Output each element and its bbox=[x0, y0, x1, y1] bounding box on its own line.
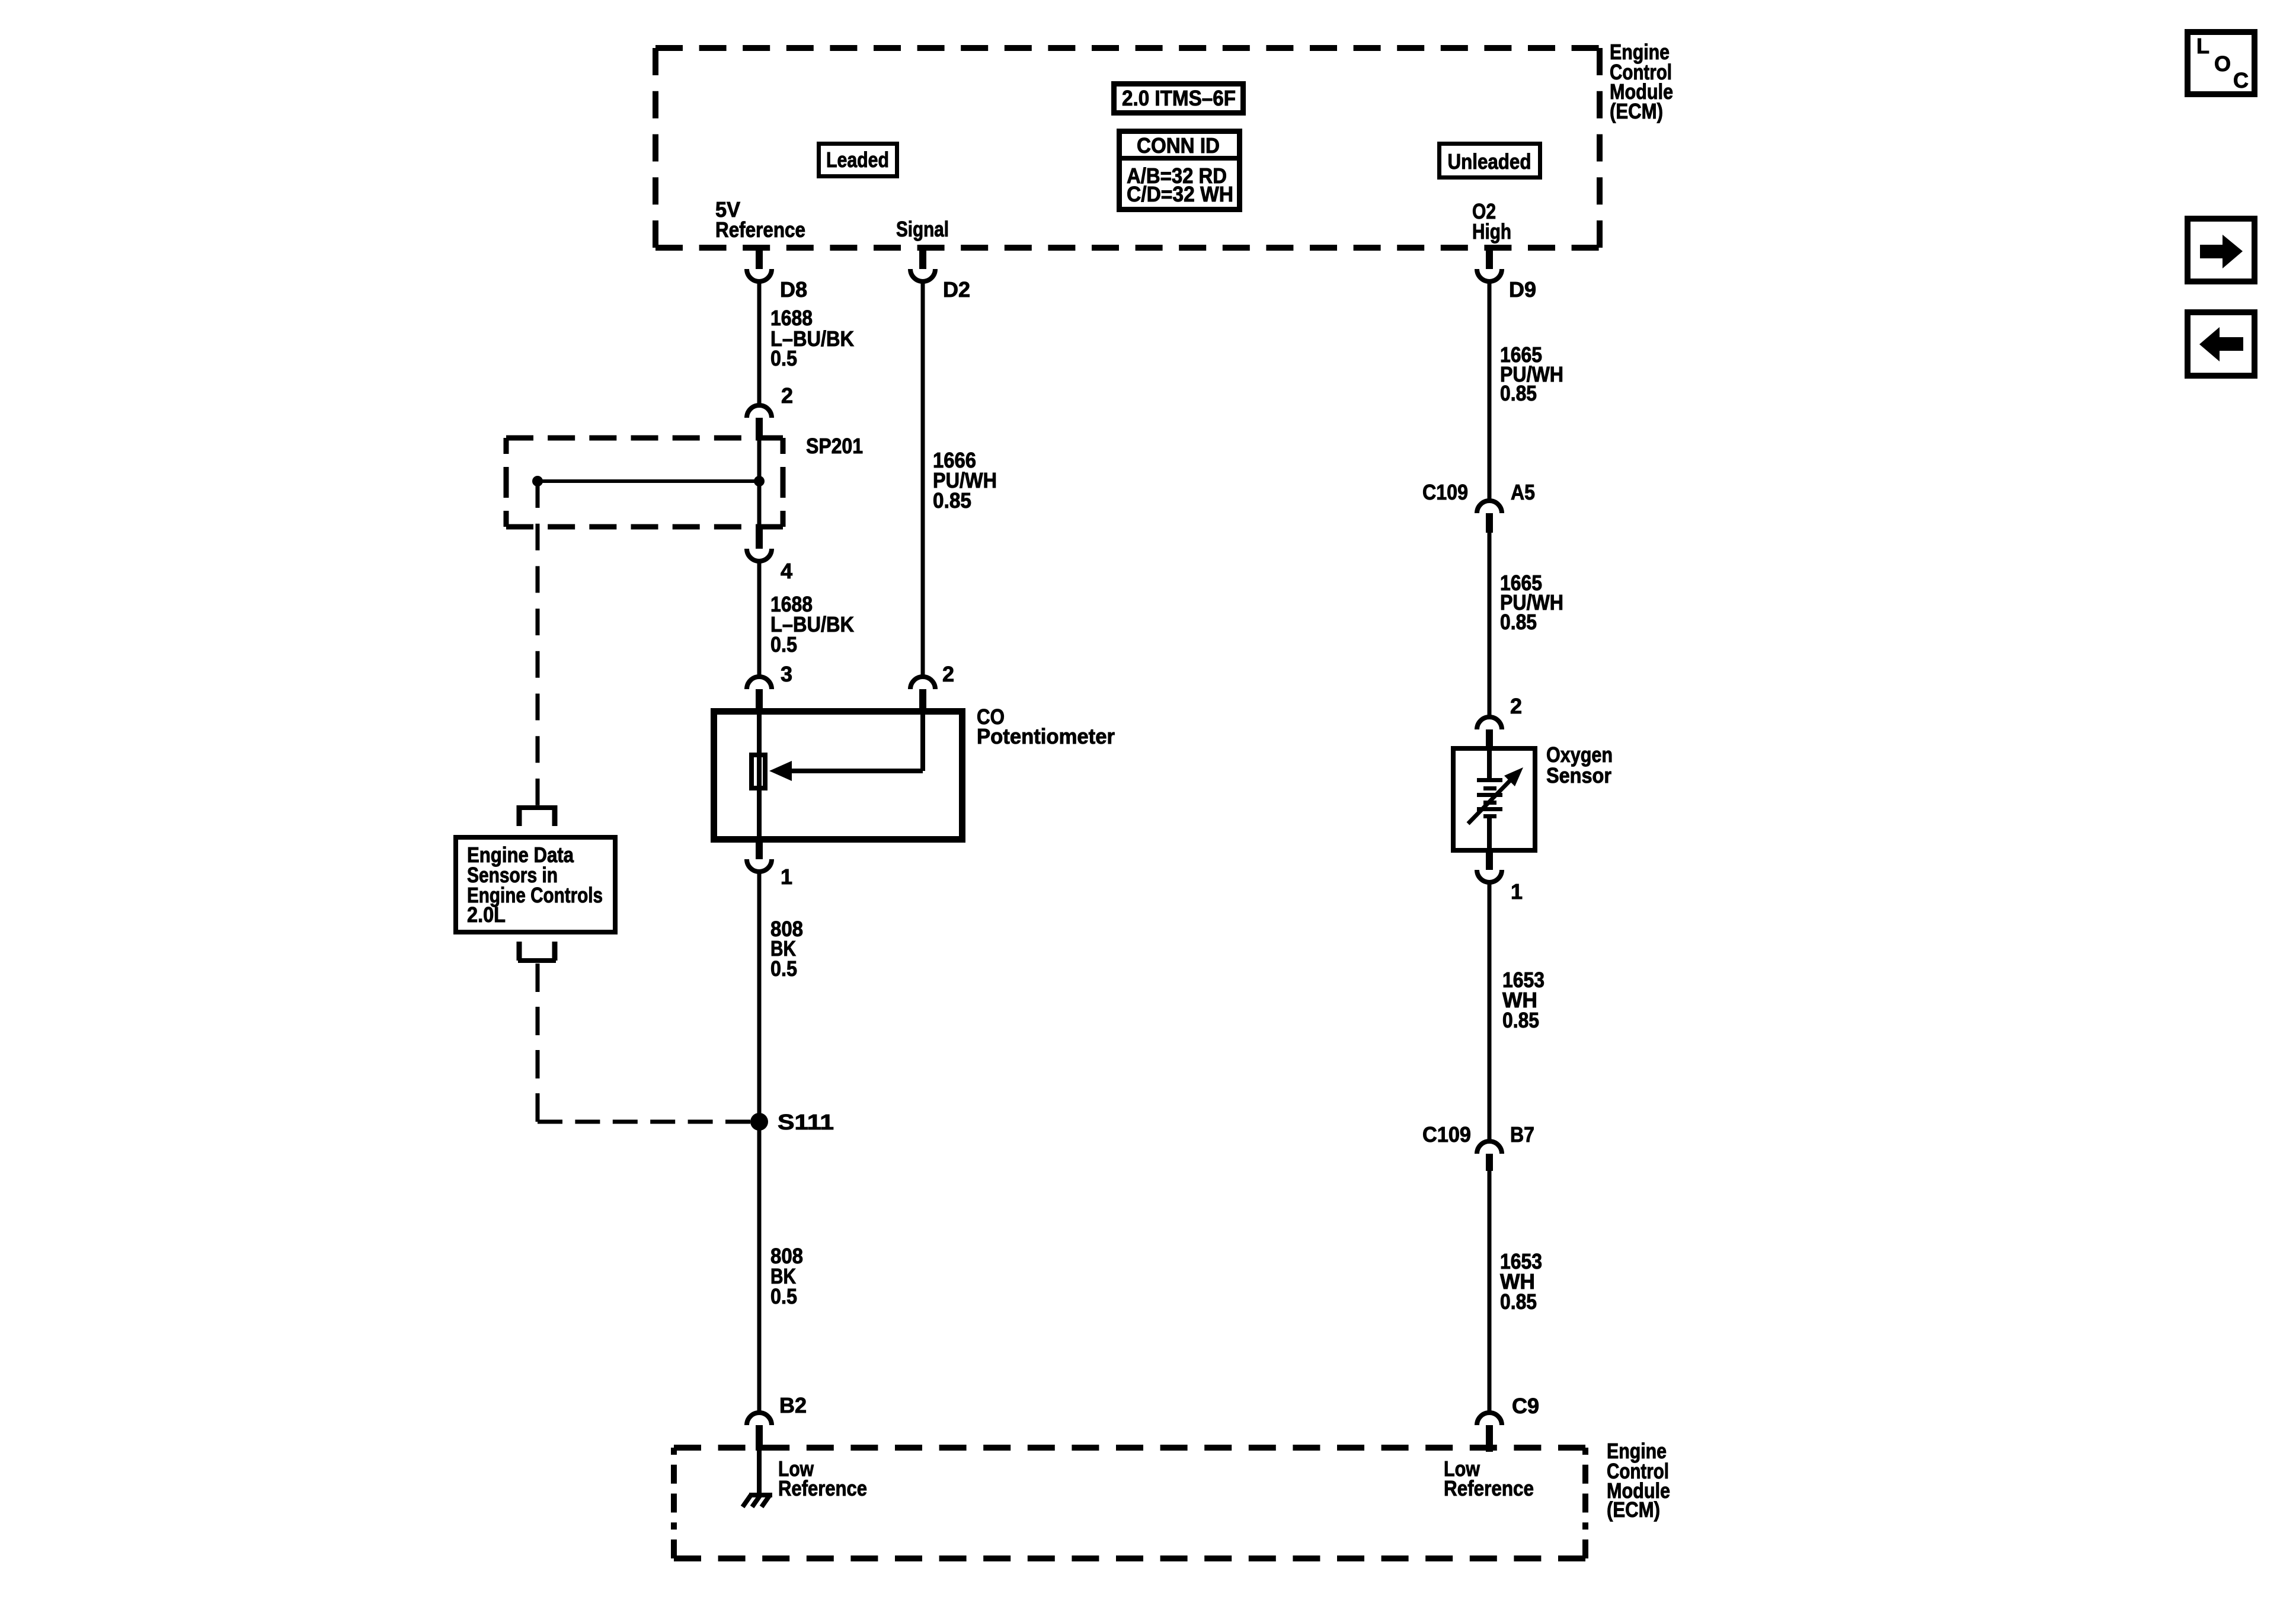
svg-text:C9: C9 bbox=[1512, 1394, 1539, 1418]
svg-text:1: 1 bbox=[781, 865, 792, 889]
connector 3 (CO pot pin 3) bbox=[747, 677, 772, 689]
resistive element wire bbox=[757, 709, 762, 839]
label box: 2.0 ITMS-6F bbox=[1114, 84, 1243, 113]
svg-text:0.85: 0.85 bbox=[933, 488, 971, 513]
svg-text:3: 3 bbox=[781, 662, 792, 686]
splice box SP201 (dashed) bbox=[506, 436, 783, 441]
svg-text:2: 2 bbox=[781, 383, 793, 408]
wire 1653 (O2 sensor to C109) bbox=[1488, 882, 1492, 1142]
dashed wire (sensors to S111) bbox=[536, 964, 540, 1122]
svg-text:2: 2 bbox=[942, 662, 954, 686]
wire 808 (S111 to B2) bbox=[757, 1122, 762, 1414]
svg-text:SP201: SP201 bbox=[806, 434, 863, 458]
variability arrow bbox=[1468, 779, 1512, 824]
label box: Leaded bbox=[819, 144, 897, 177]
svg-text:0.5: 0.5 bbox=[770, 956, 797, 981]
arrow box (previous) bbox=[2188, 312, 2255, 376]
svg-text:C/D=32 WH: C/D=32 WH bbox=[1127, 182, 1233, 206]
splice jumper wire bbox=[538, 479, 759, 483]
connector 2 (O2 sensor) bbox=[1477, 717, 1502, 729]
connector 2 (SP201 in) bbox=[747, 405, 772, 418]
connector pin D2 bbox=[919, 245, 926, 269]
wire 1688 (SP201 to CO pot) bbox=[757, 561, 762, 677]
svg-text:2.0L: 2.0L bbox=[467, 902, 506, 927]
ground (low reference) bbox=[749, 1493, 772, 1497]
svg-text:Sensor: Sensor bbox=[1546, 763, 1611, 788]
wire 1665 (C109 to O2 sensor) bbox=[1488, 533, 1492, 718]
svg-text:4: 4 bbox=[781, 559, 792, 583]
svg-text:D8: D8 bbox=[780, 277, 807, 302]
label box: Unleaded bbox=[1440, 144, 1540, 178]
svg-text:0.85: 0.85 bbox=[1502, 1008, 1539, 1032]
svg-text:2.0 ITMS–6F: 2.0 ITMS–6F bbox=[1122, 86, 1236, 110]
wire 808 (CO pot to S111) bbox=[757, 872, 762, 1122]
svg-text:Leaded: Leaded bbox=[826, 148, 889, 172]
wiper wire from pin 2 bbox=[920, 709, 925, 771]
dashed wire (SP201 to sensors) bbox=[536, 481, 540, 805]
connector pin D8 bbox=[756, 245, 763, 269]
svg-text:High: High bbox=[1472, 219, 1511, 244]
svg-text:D9: D9 bbox=[1509, 277, 1536, 302]
Oxygen Sensor box bbox=[1453, 748, 1535, 850]
connector 2 (CO pot pin 2) bbox=[910, 677, 935, 689]
connector 1 (CO pot pin 1) bbox=[756, 839, 763, 859]
connector bracket (top) bbox=[518, 805, 556, 810]
connector pin B2 bbox=[747, 1413, 772, 1425]
svg-text:0.5: 0.5 bbox=[770, 346, 797, 370]
svg-text:(ECM): (ECM) bbox=[1610, 99, 1663, 123]
svg-text:B2: B2 bbox=[779, 1393, 807, 1417]
CO Potentiometer box bbox=[714, 712, 962, 840]
svg-text:0.85: 0.85 bbox=[1500, 610, 1537, 634]
svg-text:0.85: 0.85 bbox=[1500, 1289, 1537, 1314]
svg-text:C: C bbox=[2233, 68, 2249, 92]
wiper arm bbox=[789, 769, 923, 773]
svg-text:Unleaded: Unleaded bbox=[1448, 149, 1531, 174]
svg-text:0.5: 0.5 bbox=[770, 632, 797, 657]
svg-text:0.85: 0.85 bbox=[1500, 381, 1537, 405]
wire to ground (inside ECM) bbox=[757, 1448, 762, 1494]
wire 1688 (D8 to SP201) bbox=[757, 280, 762, 405]
svg-text:L: L bbox=[2196, 34, 2209, 58]
svg-text:Potentiometer: Potentiometer bbox=[977, 724, 1115, 748]
inline connector C109 pin B7 bbox=[1477, 1141, 1502, 1154]
svg-text:A5: A5 bbox=[1511, 480, 1535, 504]
LOC legend box bbox=[2188, 32, 2255, 94]
svg-text:S111: S111 bbox=[778, 1110, 834, 1134]
svg-text:1: 1 bbox=[1511, 879, 1523, 904]
svg-text:D2: D2 bbox=[943, 277, 970, 302]
splice S111 bbox=[750, 1113, 768, 1131]
connector 4 (SP201 out) bbox=[756, 527, 763, 549]
svg-text:2: 2 bbox=[1510, 694, 1522, 718]
junction dot on wire bbox=[754, 476, 765, 486]
label box: CONN ID table bbox=[1120, 132, 1240, 210]
Engine Data Sensors box bbox=[456, 837, 615, 932]
wire 1665 (D9 to C109) bbox=[1488, 280, 1492, 500]
junction dot left bbox=[532, 476, 543, 486]
inline connector C109 pin A5 bbox=[1477, 501, 1502, 513]
svg-text:Reference: Reference bbox=[778, 1476, 867, 1500]
wire 1653 (C109 to C9) bbox=[1488, 1171, 1492, 1414]
arrow box (next) bbox=[2188, 219, 2255, 281]
svg-text:O: O bbox=[2214, 52, 2231, 76]
svg-text:(ECM): (ECM) bbox=[1607, 1497, 1660, 1522]
svg-text:B7: B7 bbox=[1510, 1122, 1534, 1147]
svg-text:Reference: Reference bbox=[1444, 1476, 1534, 1500]
ECM module box (bottom, dashed) bbox=[674, 1445, 1585, 1451]
connector 1 (O2 sensor) bbox=[1486, 850, 1493, 870]
wire 1666 (D2 to CO pot) bbox=[921, 280, 925, 677]
variable galvanic cell symbol bbox=[1477, 778, 1502, 818]
svg-text:C109: C109 bbox=[1422, 480, 1468, 504]
svg-text:Signal: Signal bbox=[896, 217, 949, 241]
O2 cell lead (top) bbox=[1487, 748, 1492, 780]
svg-text:0.5: 0.5 bbox=[770, 1284, 797, 1308]
wire through SP201 bbox=[757, 438, 762, 527]
connector bracket (bottom) bbox=[517, 942, 522, 961]
svg-text:Reference: Reference bbox=[715, 217, 805, 242]
connector pin D9 bbox=[1486, 245, 1493, 269]
connector pin C9 bbox=[1477, 1413, 1502, 1425]
svg-text:CONN ID: CONN ID bbox=[1137, 133, 1220, 158]
svg-text:C109: C109 bbox=[1422, 1122, 1471, 1147]
potentiometer element bbox=[752, 755, 765, 788]
ECM module box (top, dashed) bbox=[655, 45, 1600, 51]
O2 cell lead (bottom) bbox=[1487, 817, 1492, 850]
